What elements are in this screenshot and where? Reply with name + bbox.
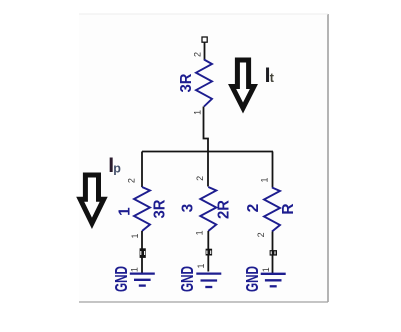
wire left resistor to ground	[141, 231, 143, 273]
svg-text:2R: 2R	[216, 200, 233, 219]
svg-text:p: p	[113, 162, 121, 176]
svg-text:1: 1	[130, 267, 140, 272]
wire middle resistor to ground	[207, 231, 209, 272]
junction square (left branch)	[140, 248, 146, 258]
wire terminal to R-top pin 2	[204, 43, 206, 61]
svg-text:1: 1	[193, 110, 203, 115]
wire top resistor to bus (with jog)	[204, 107, 209, 152]
junction square (right branch)	[270, 250, 277, 256]
svg-text:3R: 3R	[152, 200, 169, 219]
wire bus right drop	[272, 152, 274, 188]
svg-text:GND: GND	[111, 266, 131, 292]
svg-text:GND: GND	[242, 266, 262, 292]
wire bus (horizontal)	[142, 151, 273, 153]
current arrow It	[232, 60, 254, 108]
ground symbol (middle)	[196, 274, 221, 287]
svg-text:1: 1	[196, 263, 206, 268]
svg-text:1: 1	[261, 267, 271, 272]
svg-text:GND: GND	[177, 266, 197, 292]
svg-text:2: 2	[127, 178, 137, 183]
wire right resistor to ground	[272, 232, 274, 274]
resistor 3 (2R, middle branch)	[200, 187, 216, 231]
svg-text:2: 2	[195, 176, 205, 181]
svg-text:3R: 3R	[178, 74, 195, 93]
wire bus to middle resistor	[207, 152, 209, 187]
wire bus left drop	[141, 152, 143, 188]
ground symbol (left)	[130, 274, 155, 286]
ground symbol (right)	[261, 274, 286, 287]
svg-text:2: 2	[256, 232, 266, 237]
resistor 3R (top)	[196, 60, 212, 107]
svg-text:R: R	[280, 203, 297, 214]
junction square (middle branch)	[206, 249, 213, 256]
svg-text:1: 1	[116, 207, 133, 216]
resistor 2 (R, right branch)	[264, 188, 280, 232]
current arrow Ip	[80, 175, 104, 223]
svg-text:3: 3	[180, 203, 197, 212]
svg-text:2: 2	[192, 52, 202, 57]
svg-text:1: 1	[259, 177, 269, 182]
svg-text:1: 1	[195, 230, 205, 235]
node TOP input terminal	[202, 37, 207, 42]
svg-text:1: 1	[130, 233, 140, 238]
svg-text:2: 2	[245, 204, 262, 213]
resistor 1 (3R, left branch)	[134, 187, 150, 231]
